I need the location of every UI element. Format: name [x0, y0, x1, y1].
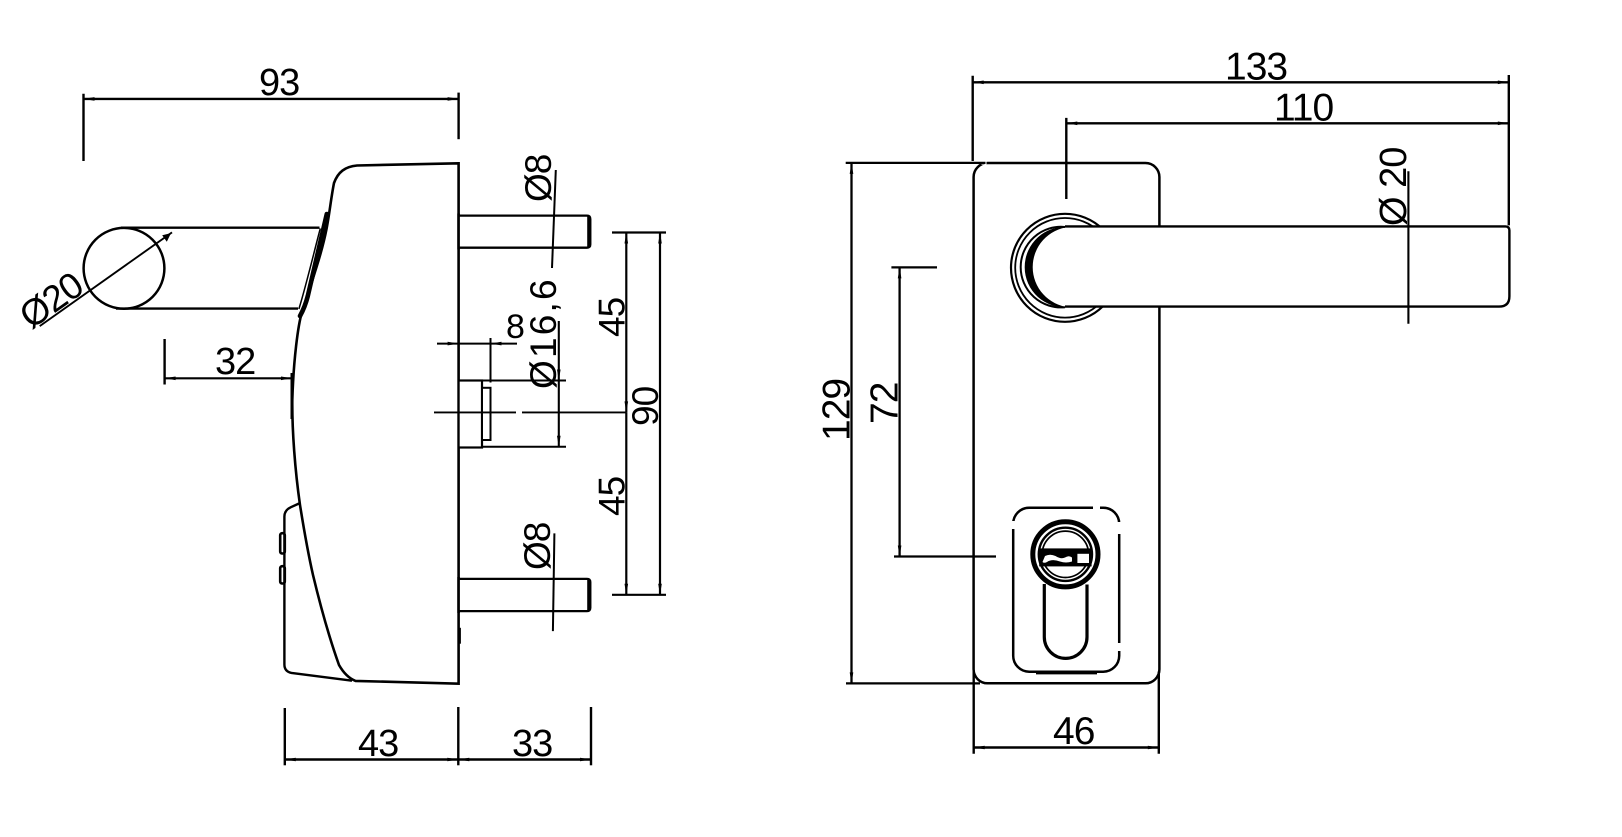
- neck collar thick crescent at tube/body joint: [299, 214, 327, 316]
- label Ø8 bottom pin: [517, 523, 558, 570]
- svg-text:Ø 20: Ø 20: [1373, 148, 1415, 226]
- centerline through spindle: [434, 411, 626, 413]
- keyhole lower slot (U shape): [1044, 584, 1087, 658]
- dimension 32: [165, 339, 292, 419]
- leader line bottom Ø8: [553, 533, 555, 631]
- svg-text:129: 129: [816, 379, 859, 441]
- leader line top Ø8: [552, 170, 556, 268]
- tab screw 2 on lug: [280, 566, 285, 583]
- top fixing pin: [459, 214, 591, 250]
- svg-text:90: 90: [625, 386, 666, 426]
- svg-text:93: 93: [259, 62, 299, 104]
- thick edge mark on body right edge: [458, 628, 461, 644]
- tab screw 1 on lug: [280, 533, 285, 553]
- body of handle mechanism (rosette housing, side profile): [292, 163, 458, 683]
- dimension Ø16,6 (step height): [482, 277, 566, 447]
- leader line Ø 20: [1407, 171, 1409, 323]
- lever neck thick arc: [1021, 227, 1069, 308]
- lever bar (front view): [1065, 226, 1509, 306]
- dimension 33: [458, 707, 591, 765]
- cylinder face middle circle: [1039, 528, 1092, 581]
- label Ø 20 (lever diameter): [1373, 148, 1415, 226]
- svg-text:133: 133: [1225, 46, 1287, 89]
- svg-text:45: 45: [592, 297, 633, 337]
- key slot band with key profile: [1039, 548, 1091, 566]
- dimension 110: [1066, 87, 1509, 200]
- svg-text:110: 110: [1274, 87, 1333, 130]
- cylinder face inner circle: [1042, 531, 1088, 577]
- dimension 129: [816, 163, 986, 684]
- dimension 43: [285, 707, 459, 765]
- svg-text:32: 32: [215, 341, 255, 383]
- svg-text:45: 45: [592, 476, 633, 516]
- dimension 93 (top overall): [84, 62, 459, 161]
- label Ø20 (tube diameter): [12, 264, 91, 336]
- escutcheon outline gaps: [1013, 508, 1119, 651]
- bottom fixing pin: [459, 577, 591, 613]
- dimension 45 bottom: [592, 412, 667, 594]
- spindle step block: [459, 381, 491, 448]
- diameter leader line for tube: [40, 232, 172, 326]
- backplate rounded rectangle: [974, 163, 1160, 683]
- dimension 72: [864, 267, 997, 556]
- svg-text:43: 43: [358, 723, 398, 765]
- dimension 133: [973, 46, 1509, 226]
- dimension 46: [974, 671, 1159, 754]
- handle tube end circle: [84, 228, 165, 309]
- svg-text:72: 72: [864, 383, 907, 424]
- dimension 90: [625, 233, 666, 595]
- dimension 8 (step width): [437, 308, 525, 383]
- cylinder face outer circle: [1033, 522, 1098, 587]
- svg-text:46: 46: [1053, 710, 1094, 753]
- dimension 45 top: [592, 233, 667, 413]
- rosette ring outer: [1011, 214, 1119, 322]
- lug (lower-left protrusion of body): [284, 504, 352, 681]
- rosette ring inner: [1015, 218, 1115, 318]
- euro cylinder escutcheon rounded square: [1013, 508, 1119, 673]
- handle tube (cylinder, side view): [116, 228, 320, 309]
- label Ø8 top pin: [518, 155, 559, 202]
- svg-text:Ø16,6: Ø16,6: [523, 277, 564, 389]
- svg-text:Ø8: Ø8: [517, 523, 558, 570]
- svg-text:Ø8: Ø8: [518, 155, 559, 202]
- svg-text:33: 33: [512, 723, 552, 765]
